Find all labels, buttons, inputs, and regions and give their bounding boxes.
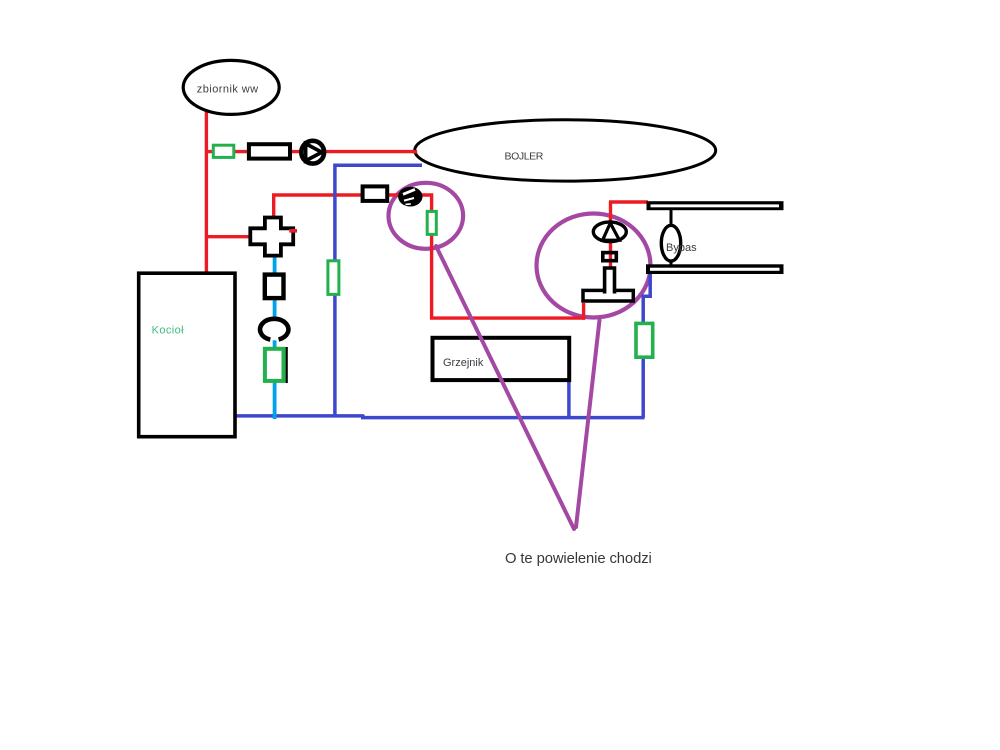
svg-text:Kocioł: Kocioł (152, 325, 185, 337)
svg-text:Grzejnik: Grzejnik (443, 357, 484, 369)
svg-text:BOJLER: BOJLER (505, 151, 544, 163)
svg-text:Bypas: Bypas (666, 242, 697, 254)
svg-text:O te powielenie chodzi: O te powielenie chodzi (505, 551, 652, 567)
svg-text:zbiornik ww: zbiornik ww (197, 83, 259, 95)
